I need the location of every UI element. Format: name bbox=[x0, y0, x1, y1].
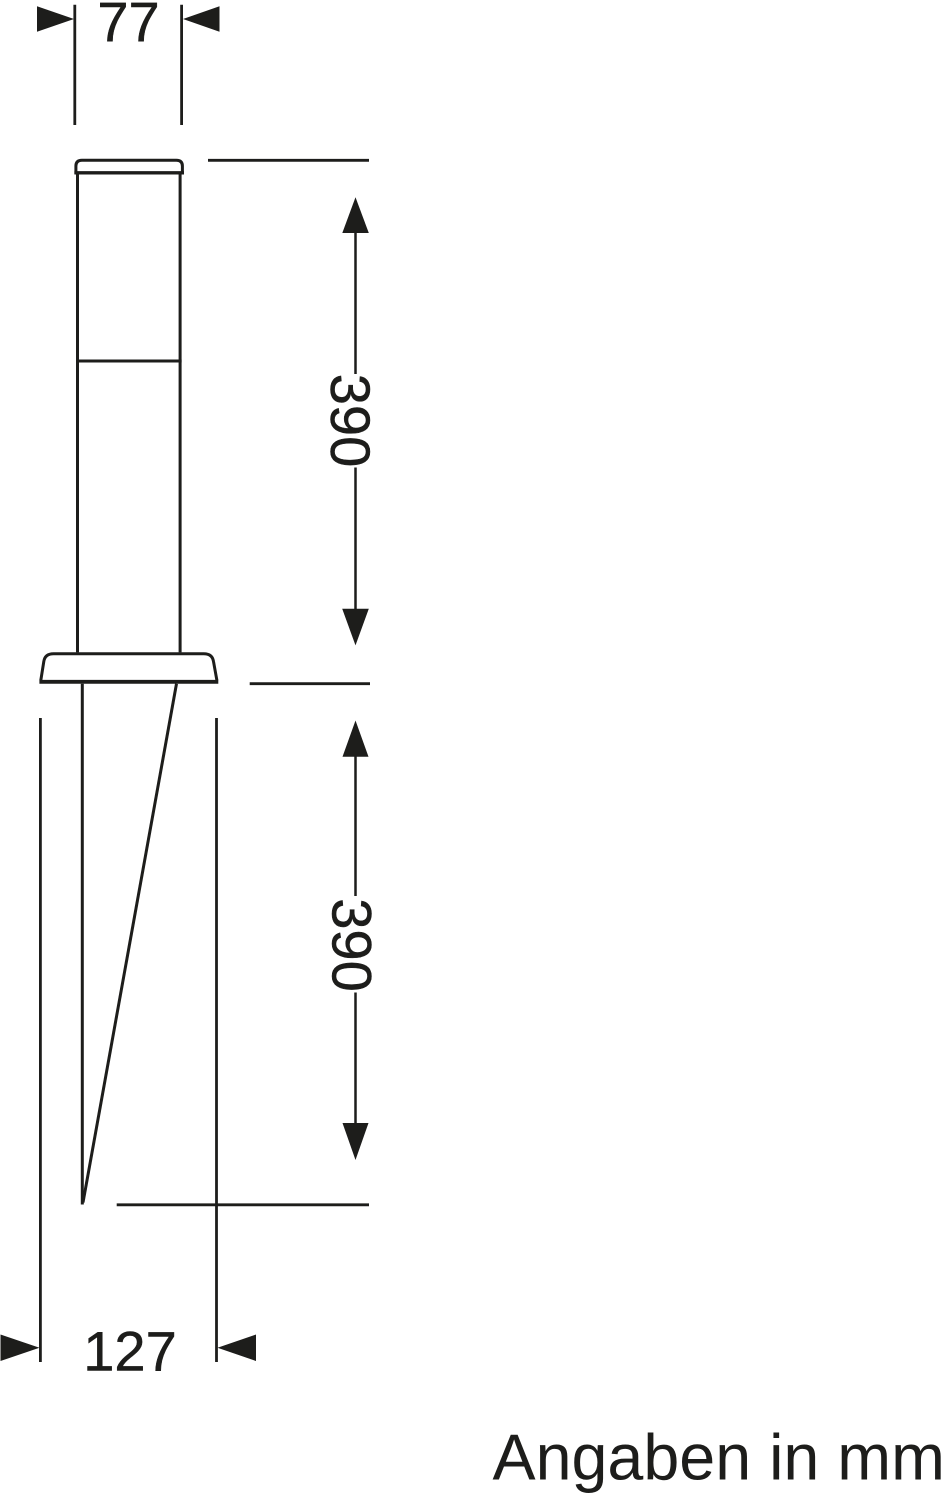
svg-text:390: 390 bbox=[321, 898, 384, 991]
svg-text:390: 390 bbox=[319, 374, 382, 467]
svg-text:77: 77 bbox=[97, 0, 159, 53]
svg-text:127: 127 bbox=[83, 1320, 176, 1383]
svg-text:Angaben in mm: Angaben in mm bbox=[493, 1421, 945, 1493]
